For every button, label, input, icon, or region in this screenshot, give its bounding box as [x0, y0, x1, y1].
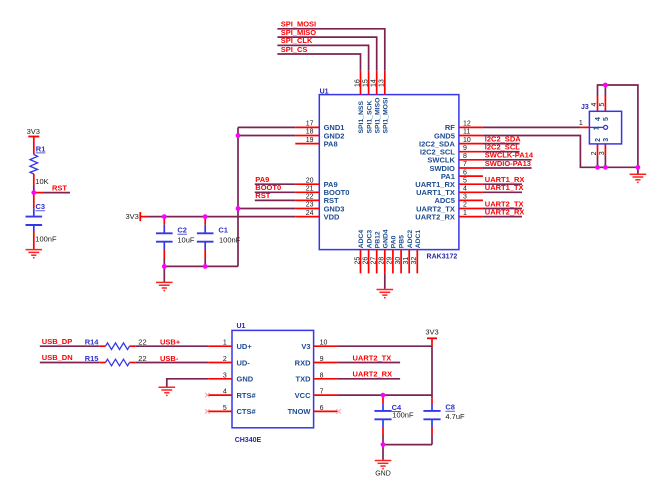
svg-text:20: 20 — [306, 177, 314, 184]
node junction C1 bottom — [203, 264, 208, 269]
svg-text:4: 4 — [595, 117, 602, 121]
svg-text:3V3: 3V3 — [27, 127, 40, 136]
node junction GND3 — [236, 206, 241, 211]
wire 3V3 stub — [140, 216, 147, 218]
wire R1 bottom — [33, 174, 35, 185]
svg-text:U1: U1 — [320, 88, 329, 95]
wire J3 top rail — [597, 96, 599, 112]
svg-text:SPI1_MOSI: SPI1_MOSI — [383, 98, 390, 134]
svg-text:TNOW: TNOW — [288, 407, 312, 416]
capacitor C1 — [197, 233, 214, 241]
pin 25 ADC4 stub — [360, 250, 362, 274]
svg-text:16: 16 — [354, 79, 361, 87]
wire VCC — [337, 394, 432, 396]
capacitor C2 lead top — [163, 217, 165, 225]
svg-text:C3: C3 — [36, 202, 46, 211]
svg-text:GND4: GND4 — [383, 229, 390, 248]
wire GND4 — [384, 273, 386, 289]
wire pin17 GND1 — [238, 126, 295, 128]
svg-text:31: 31 — [403, 257, 410, 265]
svg-text:100nF: 100nF — [219, 236, 241, 245]
wire SWDIO-PA13 — [483, 167, 532, 169]
svg-text:R1: R1 — [36, 144, 46, 153]
svg-text:UART2_RX: UART2_RX — [415, 212, 455, 221]
pin 17 GND1 stub — [295, 126, 319, 128]
power 3V3 bar (middle) — [139, 212, 141, 221]
svg-text:GND: GND — [375, 471, 391, 478]
svg-text:8: 8 — [320, 372, 324, 379]
svg-text:1: 1 — [223, 340, 227, 347]
wire pin18 GND2 — [238, 135, 295, 137]
svg-text:PA0: PA0 — [391, 235, 398, 248]
svg-text:3V3: 3V3 — [125, 212, 138, 221]
svg-text:26: 26 — [362, 257, 369, 265]
svg-text:5: 5 — [463, 177, 467, 184]
wire SPI_MOSI — [277, 29, 384, 71]
no-connect pin4 RTS# — [205, 393, 210, 398]
svg-text:19: 19 — [306, 137, 314, 144]
capacitor C4 — [374, 411, 391, 419]
connector J3 pin1 stub — [580, 126, 589, 128]
wire to ground J3 — [637, 167, 639, 173]
svg-text:13: 13 — [379, 79, 386, 87]
wire to ground under C2 — [163, 266, 165, 281]
pin 4 UART1_TX stub — [459, 191, 483, 193]
svg-text:10K: 10K — [35, 177, 48, 186]
node junction GND1/GND2 — [236, 133, 241, 138]
wire SPI_CLK — [277, 45, 368, 70]
svg-text:RTS#: RTS# — [237, 391, 257, 400]
node junction bottom rail b — [603, 165, 608, 170]
pin 10 I2C2_SDA stub — [459, 143, 483, 145]
svg-text:3: 3 — [223, 372, 227, 379]
svg-text:C1: C1 — [218, 226, 228, 235]
pin 26 ADC3 stub — [368, 250, 370, 274]
pin 24 VDD stub — [295, 216, 319, 218]
svg-text:6: 6 — [320, 405, 324, 412]
svg-text:7: 7 — [320, 389, 324, 396]
svg-text:UART2_RX: UART2_RX — [485, 207, 525, 216]
wire C4/C8 ground rail — [383, 444, 432, 446]
wire UART1_TX — [483, 191, 522, 193]
svg-text:TXD: TXD — [296, 375, 312, 384]
svg-text:32: 32 — [411, 257, 418, 265]
svg-text:3: 3 — [463, 194, 467, 201]
capacitor C3 lead bottom — [33, 226, 35, 232]
svg-text:4: 4 — [463, 185, 467, 192]
pin 15 SPI1_SCK stub — [368, 71, 370, 95]
svg-text:RXD: RXD — [295, 358, 311, 367]
node junction bottom rail a — [595, 165, 600, 170]
pin 13 SPI1_MOSI stub — [384, 71, 386, 95]
capacitor C3 lead top — [33, 193, 35, 209]
node junction C2 top — [162, 214, 167, 219]
wire PA9 — [255, 183, 295, 185]
ground under C2 — [156, 282, 173, 288]
connector J3 body — [589, 111, 621, 144]
pin 14 SPI1_MISO stub — [376, 71, 378, 95]
pin 21 BOOT0 stub — [295, 191, 319, 193]
svg-text:4: 4 — [223, 389, 227, 396]
pin 32 ADC1 stub — [416, 250, 418, 274]
wire RST — [255, 199, 295, 201]
svg-text:5: 5 — [599, 103, 606, 107]
wire RF to J3 — [483, 126, 581, 128]
svg-text:PB12: PB12 — [374, 231, 381, 248]
pin 16 SPI1_NSS stub — [360, 71, 362, 95]
svg-text:2: 2 — [223, 356, 227, 363]
capacitor C2 — [156, 233, 173, 241]
pin 10 V3 stub — [314, 345, 338, 347]
wire GND pin3 — [167, 379, 208, 387]
svg-text:2: 2 — [591, 151, 598, 155]
no-connect pin5 CTS# — [205, 409, 210, 414]
wire 3V3 vertical to C8 — [431, 346, 433, 398]
pin 4 RTS# stub — [208, 394, 232, 396]
svg-text:3: 3 — [603, 138, 610, 142]
svg-text:30: 30 — [395, 257, 402, 265]
capacitor C8 — [423, 411, 440, 419]
svg-text:PA8: PA8 — [324, 139, 338, 148]
svg-text:UD+: UD+ — [237, 342, 253, 351]
capacitor C8 lead bottom — [431, 420, 433, 427]
no-connect pin6 TNOW — [336, 409, 341, 414]
wire cap ground rail — [164, 265, 238, 267]
ground under GND4 — [377, 290, 394, 296]
ground under J3 — [630, 174, 647, 180]
svg-text:2: 2 — [463, 202, 467, 209]
pin 27 PB12 stub — [376, 250, 378, 274]
pin 6 TNOW stub — [314, 410, 338, 412]
capacitor C4 lead top — [382, 395, 384, 404]
svg-text:12: 12 — [463, 121, 471, 128]
wire 3V3 to R1 — [33, 137, 35, 155]
svg-text:23: 23 — [306, 202, 314, 209]
wire SWCLK-PA14 — [483, 159, 532, 161]
wire UART2_RX — [483, 216, 522, 218]
wire to ground under C4 — [382, 445, 384, 460]
wire SPI_MISO — [277, 37, 376, 71]
wire I2C2_SDA — [483, 143, 520, 145]
svg-text:U1: U1 — [237, 323, 246, 330]
pin 23 GND3 stub — [295, 208, 319, 210]
IC U1 CH340E body — [232, 330, 314, 427]
wire RST — [34, 192, 44, 194]
wire GND net vertical — [237, 127, 239, 266]
capacitor C8 lead top — [431, 398, 433, 404]
pin 31 ADC2 stub — [408, 250, 410, 274]
svg-text:CTS#: CTS# — [237, 407, 257, 416]
pin 20 PA9 stub — [295, 183, 319, 185]
wire USB_DP — [40, 345, 100, 347]
svg-text:28: 28 — [379, 257, 386, 265]
pin 2 UART2_TX stub — [459, 208, 483, 210]
svg-text:ADC2: ADC2 — [407, 230, 414, 249]
wire 3V3 rail to VDD — [148, 216, 296, 218]
svg-text:ADC1: ADC1 — [415, 230, 422, 249]
svg-text:11: 11 — [463, 129, 470, 136]
svg-text:C8: C8 — [445, 403, 455, 412]
svg-text:22: 22 — [306, 194, 314, 201]
pin 6 PA1 stub — [459, 175, 483, 177]
svg-text:1: 1 — [579, 120, 583, 127]
node junction RST — [31, 190, 36, 195]
svg-text:SPI1_SCK: SPI1_SCK — [366, 101, 373, 134]
svg-text:8: 8 — [463, 153, 467, 160]
resistor R14 — [99, 345, 105, 347]
wire I2C2_SCL — [483, 151, 520, 153]
svg-text:SWDIO-PA13: SWDIO-PA13 — [485, 159, 531, 168]
svg-text:21: 21 — [306, 185, 314, 192]
svg-text:14: 14 — [371, 79, 378, 87]
node junction top rail — [603, 83, 608, 88]
wire pin23 GND3 — [238, 208, 295, 210]
svg-text:VCC: VCC — [295, 391, 311, 400]
wire SPI_CS — [277, 54, 360, 71]
wire USB- — [136, 362, 209, 364]
svg-text:V3: V3 — [301, 342, 310, 351]
svg-text:25: 25 — [354, 257, 361, 265]
svg-text:RAK3172: RAK3172 — [427, 253, 458, 260]
svg-text:17: 17 — [306, 121, 314, 128]
ground at CH340E pin3 — [159, 387, 176, 393]
wire USB_DN — [40, 362, 100, 364]
node junction C4 bottom — [381, 442, 386, 447]
svg-text:5: 5 — [603, 117, 610, 121]
svg-text:100nF: 100nF — [392, 411, 414, 420]
wire UART2_TX — [483, 208, 522, 210]
svg-text:UD-: UD- — [237, 358, 251, 367]
svg-text:15: 15 — [362, 79, 369, 87]
ground under C3 — [26, 250, 43, 256]
pin 7 VCC stub — [314, 394, 338, 396]
pin 3 ADC5 stub — [459, 199, 483, 201]
pin 19 PA8 stub — [295, 143, 319, 145]
pin 11 GND5 stub — [459, 135, 483, 137]
capacitor C1 lead top — [204, 217, 206, 225]
svg-text:UART2_RX: UART2_RX — [353, 370, 393, 379]
node junction C2 bottom — [162, 264, 167, 269]
svg-text:4: 4 — [591, 103, 598, 107]
resistor R1 — [30, 155, 38, 175]
pin 5 UART1_RX stub — [459, 183, 483, 185]
wire UART2_TX — [337, 362, 400, 364]
svg-text:24: 24 — [306, 210, 314, 217]
svg-text:R15: R15 — [85, 354, 99, 363]
pin 3 GND stub — [208, 378, 232, 380]
power 3V3 bar (bottom right) — [427, 337, 437, 339]
wire GND5 to ground rail — [483, 136, 638, 168]
svg-text:SPI1_MISO: SPI1_MISO — [374, 98, 381, 134]
svg-text:9: 9 — [463, 145, 467, 152]
svg-text:UART1_TX: UART1_TX — [485, 183, 524, 192]
pin 7 SWDIO stub — [459, 167, 483, 169]
svg-text:GND: GND — [237, 375, 254, 384]
svg-text:100nF: 100nF — [35, 234, 57, 243]
pin 8 SWCLK stub — [459, 159, 483, 161]
pin 1 UART2_RX stub — [459, 216, 483, 218]
wire BOOT0 — [255, 191, 295, 193]
svg-text:UART2_TX: UART2_TX — [353, 353, 392, 362]
svg-text:10uF: 10uF — [177, 236, 195, 245]
wire 3V3 stub down — [431, 338, 433, 346]
pin 1 UD+ stub — [208, 345, 232, 347]
svg-text:6: 6 — [463, 169, 467, 176]
pin 2 UD- stub — [208, 362, 232, 364]
svg-text:9: 9 — [320, 356, 324, 363]
pin 5 CTS# stub — [208, 410, 232, 412]
svg-text:3: 3 — [599, 151, 606, 155]
svg-text:R14: R14 — [85, 338, 100, 347]
svg-text:7: 7 — [463, 161, 467, 168]
node junction VCC/C4 — [381, 393, 386, 398]
svg-text:USB_DP: USB_DP — [42, 337, 72, 346]
power 3V3 bar (left) — [28, 136, 39, 138]
svg-text:18: 18 — [306, 129, 314, 136]
svg-text:10: 10 — [463, 137, 471, 144]
wire V3 to 3V3 — [337, 345, 432, 347]
svg-text:PB5: PB5 — [399, 235, 406, 248]
svg-text:2: 2 — [595, 138, 602, 142]
wire UART1_RX — [483, 183, 522, 185]
capacitor C3 — [26, 217, 43, 225]
connector J3 center contact — [589, 126, 603, 128]
capacitor C2 lead bottom — [163, 243, 165, 250]
svg-text:29: 29 — [387, 257, 394, 265]
wire UART2_RX — [337, 378, 400, 380]
resistor R15 — [99, 362, 105, 364]
svg-text:27: 27 — [371, 257, 378, 265]
svg-text:3V3: 3V3 — [425, 328, 438, 337]
svg-text:CH340E: CH340E — [235, 437, 262, 444]
pin 28 GND4 stub — [384, 250, 386, 274]
wire J3 bottom stubs — [597, 144, 599, 156]
node junction ground rail — [636, 165, 641, 170]
node junction C1 top — [203, 214, 208, 219]
svg-text:ADC4: ADC4 — [358, 230, 365, 249]
pin 12 RF stub — [459, 126, 483, 128]
svg-text:1: 1 — [463, 210, 467, 217]
svg-text:RST: RST — [52, 183, 67, 192]
pin 8 TXD stub — [314, 378, 338, 380]
capacitor C1 lead bottom — [204, 243, 206, 250]
svg-text:J3: J3 — [581, 104, 589, 111]
svg-text:RST: RST — [255, 191, 270, 200]
svg-text:1: 1 — [593, 126, 600, 130]
svg-text:10: 10 — [320, 340, 328, 347]
ground GND under C4 — [375, 461, 392, 467]
svg-text:SPI_CS: SPI_CS — [281, 45, 308, 54]
pin 9 I2C2_SCL stub — [459, 151, 483, 153]
pin 9 RXD stub — [314, 362, 338, 364]
pin 30 PB5 stub — [400, 250, 402, 274]
svg-text:ADC3: ADC3 — [366, 230, 373, 249]
svg-text:SPI1_NSS: SPI1_NSS — [358, 101, 365, 134]
svg-text:USB_DN: USB_DN — [42, 353, 73, 362]
capacitor C4 lead bottom — [382, 420, 384, 427]
svg-text:4.7uF: 4.7uF — [445, 412, 465, 421]
svg-text:VDD: VDD — [324, 212, 340, 221]
svg-text:C2: C2 — [177, 226, 187, 235]
pin 22 RST stub — [295, 199, 319, 201]
IC U1 RAK3172 body — [319, 95, 459, 250]
pin 29 PA0 stub — [392, 250, 394, 274]
svg-text:5: 5 — [223, 405, 227, 412]
wire USB+ — [136, 345, 209, 347]
pin 18 GND2 stub — [295, 135, 319, 137]
